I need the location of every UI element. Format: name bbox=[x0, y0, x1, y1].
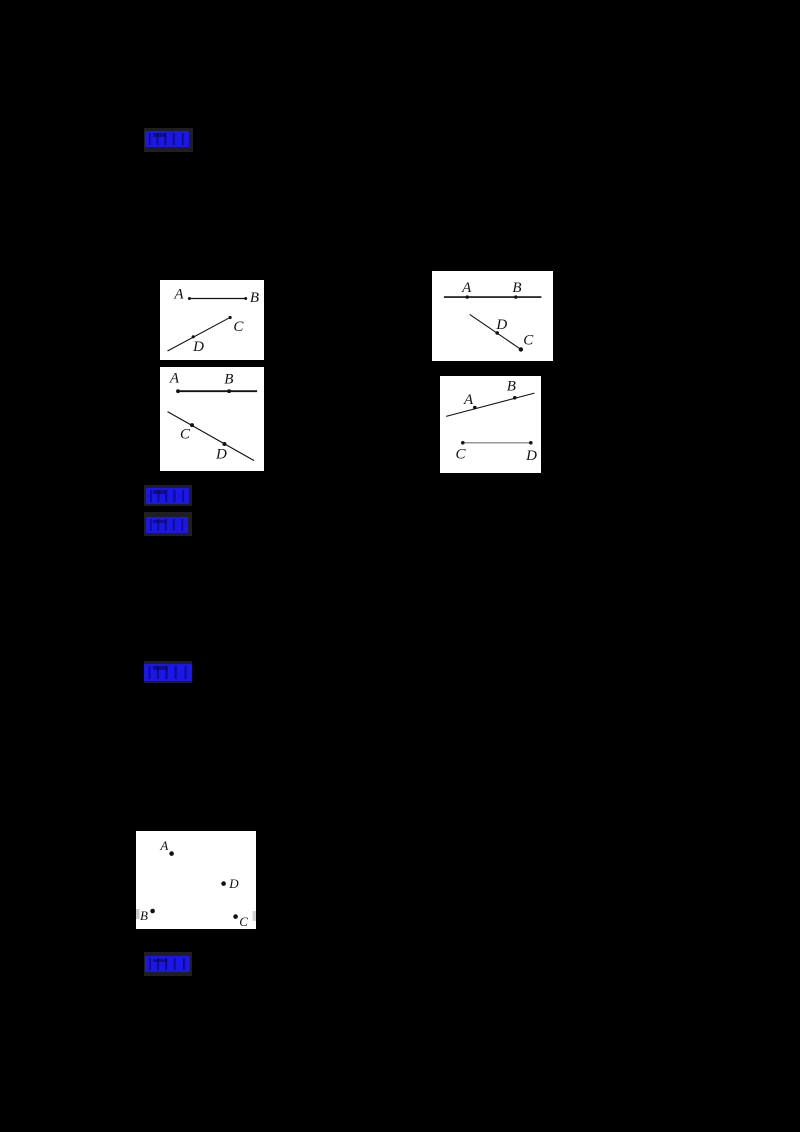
blue label 3 bbox=[144, 512, 193, 535]
blue label 1 bbox=[144, 128, 193, 152]
segment AB bbox=[189, 298, 245, 300]
svg-text:D: D bbox=[525, 448, 537, 464]
figure panel 4 (line AB, segment CD) bbox=[440, 376, 541, 473]
blue label 5 bbox=[144, 952, 192, 976]
point C dot bbox=[190, 423, 194, 427]
ray AB bbox=[177, 390, 257, 392]
point D dot bbox=[529, 441, 533, 445]
blue label 2 bbox=[144, 485, 193, 506]
svg-text:A: A bbox=[463, 392, 474, 408]
point D dot bbox=[222, 442, 226, 446]
svg-text:D: D bbox=[192, 339, 204, 355]
segment CD bbox=[463, 442, 531, 444]
figure panel 2 (ray AB, line CD) bbox=[160, 367, 264, 471]
point B dot bbox=[227, 389, 231, 393]
svg-text:B: B bbox=[250, 290, 259, 306]
point C dot bbox=[519, 347, 523, 351]
svg-text:A: A bbox=[159, 838, 168, 853]
point A dot bbox=[169, 851, 174, 856]
blue label 4 bbox=[144, 661, 193, 683]
svg-text:C: C bbox=[180, 427, 191, 443]
svg-text:D: D bbox=[228, 876, 239, 891]
svg-text:B: B bbox=[140, 908, 148, 923]
svg-text:B: B bbox=[224, 371, 233, 387]
point D dot bbox=[495, 331, 499, 335]
svg-text:C: C bbox=[523, 332, 534, 348]
svg-text:D: D bbox=[215, 446, 227, 462]
point B dot bbox=[514, 295, 517, 298]
point A dot bbox=[473, 406, 477, 410]
line through A B bbox=[444, 296, 542, 298]
svg-text:C: C bbox=[233, 319, 244, 335]
ray through D to C bbox=[168, 317, 231, 351]
line through A B bbox=[446, 393, 534, 416]
point C dot bbox=[461, 441, 465, 445]
figure panel 5 (four points A B C D) bbox=[136, 831, 256, 929]
figure panel 3 (line AB, ray DC) bbox=[432, 271, 553, 361]
svg-text:B: B bbox=[507, 379, 516, 395]
figure panel 1 (segment AB, ray CD) bbox=[160, 280, 264, 360]
point C dot bbox=[229, 316, 232, 319]
svg-text:A: A bbox=[461, 280, 472, 296]
point A dot bbox=[188, 297, 191, 300]
point D dot bbox=[192, 335, 195, 338]
point B dot bbox=[513, 396, 517, 400]
svg-text:D: D bbox=[495, 317, 507, 333]
svg-text:C: C bbox=[456, 447, 467, 463]
point C dot bbox=[233, 914, 238, 919]
edge handle right bbox=[253, 911, 257, 921]
line CD bbox=[168, 412, 255, 461]
svg-text:B: B bbox=[512, 280, 521, 296]
point A dot bbox=[466, 295, 469, 298]
svg-text:A: A bbox=[173, 287, 184, 303]
point D dot bbox=[221, 881, 226, 886]
edge handle left bbox=[136, 909, 140, 919]
point A dot bbox=[176, 389, 180, 393]
point B dot bbox=[244, 297, 247, 300]
ray from C through D bbox=[470, 314, 521, 349]
svg-text:A: A bbox=[169, 371, 180, 387]
point B dot bbox=[150, 909, 155, 914]
svg-text:C: C bbox=[239, 914, 248, 929]
